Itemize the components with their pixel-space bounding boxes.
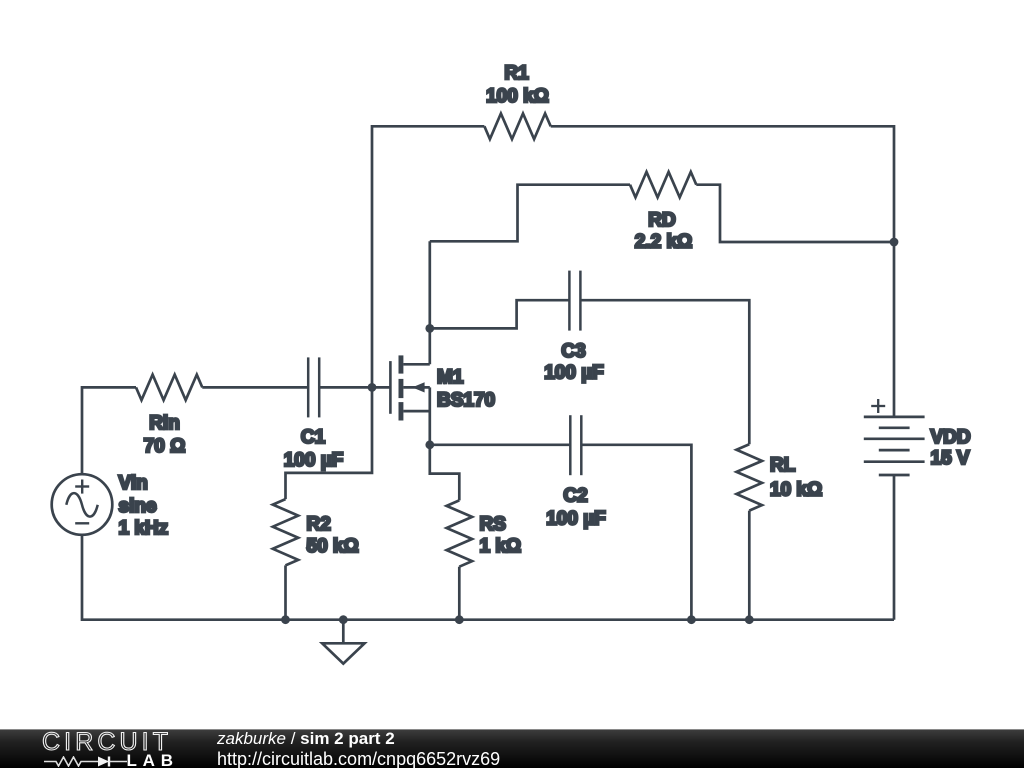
- svg-text:R2: R2: [307, 514, 331, 535]
- svg-text:100 µF: 100 µF: [284, 450, 344, 471]
- junction: RS at bottom rail: [455, 615, 464, 624]
- wire: R1 right to VDD top rail: [551, 126, 894, 417]
- svg-text:1 kΩ: 1 kΩ: [480, 536, 522, 557]
- resistor R1: [484, 114, 550, 140]
- junction: RD branch on VDD rail: [890, 238, 899, 247]
- resistor Rin: [136, 375, 202, 401]
- wire: gate lead from junction to M1 gate: [319, 386, 390, 389]
- svg-text:RL: RL: [770, 455, 796, 476]
- source Vin (sine): [52, 474, 113, 535]
- junction: source node at C2 branch: [425, 440, 434, 449]
- wire: gate node down to R2 top (step left): [286, 387, 373, 499]
- svg-text:M1: M1: [437, 367, 464, 388]
- svg-text:RS: RS: [480, 514, 506, 535]
- svg-text:1 kHz: 1 kHz: [119, 518, 169, 539]
- svg-text:C1: C1: [301, 427, 326, 448]
- wire: Vin bottom to bottom rail: [82, 535, 286, 620]
- junction: gate node: [368, 383, 377, 392]
- junction: RL at bottom rail: [745, 615, 754, 624]
- junction: ground at bottom rail: [339, 615, 348, 624]
- wire: RD right down to VDD rail: [696, 185, 894, 242]
- svg-text:2.2 kΩ: 2.2 kΩ: [635, 232, 693, 253]
- wire: Vin top to Rin left: [82, 387, 136, 474]
- wire: drain vertical: [428, 241, 431, 364]
- CircuitLab logo wordmark LAB: [127, 751, 179, 771]
- wire: source node to C2 left: [430, 443, 570, 446]
- wire: C2 right down to bottom rail: [581, 445, 691, 620]
- resistor RL: [737, 444, 763, 510]
- svg-text:15 V: 15 V: [931, 448, 970, 469]
- svg-text:100 kΩ: 100 kΩ: [486, 86, 549, 107]
- wire: VDD bottom to bottom rail: [893, 475, 896, 620]
- footer title: [217, 729, 395, 749]
- svg-text:C2: C2: [563, 486, 587, 507]
- svg-text:R1: R1: [504, 63, 529, 84]
- wire: bottom ground rail: [286, 618, 895, 621]
- svg-text:50 kΩ: 50 kΩ: [307, 536, 359, 557]
- svg-text:100 µF: 100 µF: [546, 509, 606, 530]
- resistor R2: [273, 499, 298, 565]
- svg-text:70 Ω: 70 Ω: [144, 436, 186, 457]
- CircuitLab logo squiggle (resistor + diode): [44, 756, 129, 767]
- wire: Rin right to C1 left: [202, 386, 308, 389]
- svg-text:Rin: Rin: [149, 413, 180, 434]
- svg-text:100 µF: 100 µF: [544, 363, 604, 384]
- wire: source node down to RS top (step right): [430, 445, 460, 501]
- capacitor C1: [308, 357, 319, 417]
- CircuitLab logo wordmark CIRCUIT: [42, 728, 172, 757]
- ground symbol: [322, 620, 364, 664]
- wire: drain node to RD left (step up): [430, 185, 630, 242]
- capacitor C2: [570, 415, 581, 475]
- junction: drain node at C3 branch: [425, 324, 434, 333]
- svg-text:10 kΩ: 10 kΩ: [770, 480, 822, 501]
- wire: drain node to C3 left (step up): [430, 300, 570, 328]
- junction: C2 branch at bottom rail: [687, 615, 696, 624]
- svg-text:Vin: Vin: [119, 473, 148, 494]
- capacitor C3: [569, 271, 580, 331]
- wire: R2 bottom to bottom rail: [284, 565, 287, 619]
- wire: RL bottom to ground rail: [748, 511, 751, 620]
- svg-text:RD: RD: [648, 210, 675, 231]
- wire: gate node up-left rail to R1: [372, 126, 484, 387]
- svg-text:BS170: BS170: [437, 390, 495, 411]
- svg-text:sine: sine: [119, 496, 157, 517]
- wire: C3 right down to RL top: [580, 300, 749, 444]
- junction: R2 at bottom rail: [281, 615, 290, 624]
- wire: RS bottom to bottom rail: [458, 567, 461, 620]
- resistor RD: [630, 172, 696, 198]
- transistor M1 (NMOS BS170): [390, 355, 429, 444]
- svg-text:VDD: VDD: [931, 427, 971, 448]
- footer url: [217, 749, 500, 770]
- svg-text:C3: C3: [561, 341, 585, 362]
- battery VDD: [864, 399, 925, 475]
- resistor RS: [447, 500, 473, 566]
